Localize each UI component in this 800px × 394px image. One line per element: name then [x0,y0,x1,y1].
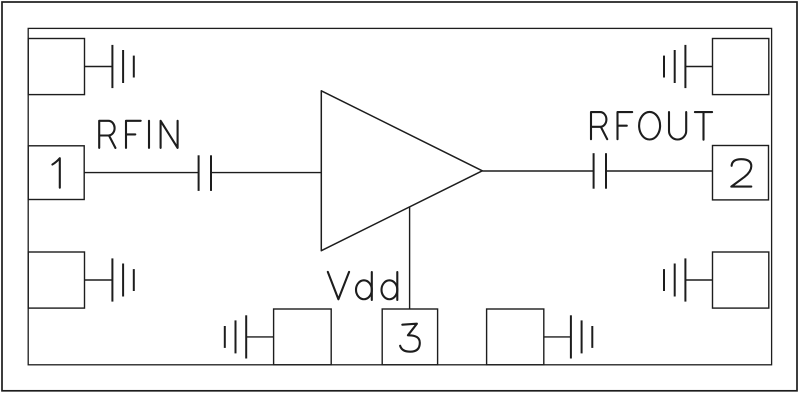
ground [112,45,133,88]
capacitor C2 [594,153,606,189]
ground [112,258,133,301]
pin number 2 [731,159,751,186]
wire [482,170,593,172]
wire [685,66,712,68]
wire [606,170,713,172]
pad P4 (bottom-right) [713,252,769,308]
pad P5 (bottom-center-left) [274,309,332,365]
ground [664,258,685,301]
wire [84,172,198,174]
port 3 [382,309,437,365]
port 2 [713,146,769,200]
wire [246,336,273,338]
pin number 3 [400,324,420,352]
wire [409,207,411,309]
ground [664,45,685,88]
pad P1 (top-left) [28,39,84,95]
pad P2 (bottom-left) [28,252,84,308]
port 1 [28,146,84,200]
wire [85,279,113,281]
op-amp U1 [321,91,482,251]
pin number 1 [52,158,59,188]
chip outline [28,28,771,364]
net label Vdd [328,272,398,300]
pad P6 (bottom-center-right) [487,309,544,365]
ground [225,315,246,358]
wire [685,279,712,281]
capacitor C1 [199,155,211,191]
net label RFIN [99,121,177,148]
net label RFOUT [591,112,712,140]
wire [85,66,113,68]
pad P3 (top-right) [713,39,769,95]
wire [544,336,571,338]
ground [571,315,592,358]
wire [211,172,321,174]
